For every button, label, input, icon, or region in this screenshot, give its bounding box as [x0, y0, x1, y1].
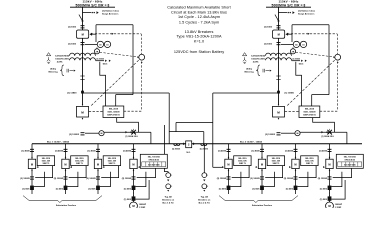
svg-text:115kV/13.8kV: 115kV/13.8kV: [251, 58, 265, 60]
wire: bay drop: [261, 144, 263, 194]
svg-text:(3) 1200/5: (3) 1200/5: [284, 178, 294, 180]
svg-text:M: M: [64, 163, 66, 167]
wire: bay drop: [295, 144, 297, 194]
dashed link breaker-relay: [285, 111, 299, 113]
delta symbol: [243, 53, 247, 56]
bay breaker drawout: [228, 156, 230, 158]
CT secondary wiring loop: [265, 166, 282, 178]
relay circle TR: [94, 49, 99, 54]
tie control header: [169, 131, 204, 133]
svg-text:(1) 50/5: (1) 50/5: [286, 188, 294, 190]
zero-seq CT wiring: [135, 172, 146, 187]
lockout relay circle 86: [281, 132, 295, 134]
svg-text:13.8kV Breakers: 13.8kV Breakers: [185, 30, 214, 34]
svg-text:(1) 400/5: (1) 400/5: [218, 149, 227, 152]
bay breaker drawout: [295, 156, 297, 158]
svg-text:(1) 1000/5: (1) 1000/5: [292, 59, 300, 61]
station PT fuse (1) 13800: [81, 91, 84, 94]
CT secondary wiring loop: [35, 166, 52, 178]
motor bay relay label box: [336, 154, 363, 168]
svg-text:(1) 400/5: (1) 400/5: [251, 149, 260, 152]
svg-text:5000MVA S/C X/R = 8: 5000MVA S/C X/R = 8: [272, 3, 306, 7]
svg-text:2: 2: [207, 186, 208, 188]
bay relay label box: [37, 156, 54, 166]
svg-text:(1) 400/5: (1) 400/5: [319, 149, 328, 152]
svg-text:(1) 50/5: (1) 50/5: [252, 188, 260, 190]
second zero-seq CT (1) 50/5: [133, 190, 135, 196]
wire: bay drop: [31, 144, 33, 194]
typ breakers note bus1: [165, 125, 169, 172]
svg-text:Breakers on: Breakers on: [198, 198, 211, 201]
secondary metering tap with arrows: [95, 60, 104, 62]
svg-text:Breakers on: Breakers on: [162, 198, 175, 201]
svg-text:SEL-351S: SEL-351S: [272, 158, 281, 160]
dashed link TR to 86T: [296, 52, 334, 57]
surge arrester branch: [279, 12, 288, 14]
svg-text:50BF 79: 50BF 79: [306, 163, 313, 165]
svg-text:(3) 1200/5: (3) 1200/5: [20, 178, 30, 180]
svg-text:1000HP: 1000HP: [335, 204, 343, 206]
typ breakers note bus2: [203, 144, 205, 173]
motor M 1000HP: [130, 202, 138, 210]
svg-text:(1) 50/5: (1) 50/5: [88, 188, 96, 190]
bay relay label box: [71, 156, 88, 166]
svg-text:600:5: 600:5: [299, 63, 304, 65]
control wiring rectangle: [292, 24, 329, 26]
svg-text:(1) 400/5: (1) 400/5: [55, 149, 64, 152]
svg-text:(3) 1200/5: (3) 1200/5: [86, 178, 96, 180]
lockout relay circle 86: [85, 132, 99, 134]
svg-text:2: 2: [171, 186, 172, 188]
wire: bay drop: [228, 144, 230, 194]
relay circles 50/51: [281, 43, 293, 45]
svg-text:50/51, 50/51N: 50/51, 50/51N: [108, 111, 121, 113]
wire: feeder drop: [82, 7, 84, 104]
arrow into breaker: [37, 166, 39, 168]
svg-text:50BF 79: 50BF 79: [76, 163, 83, 165]
svg-text:Bus 1 13.8kV - 1200A: Bus 1 13.8kV - 1200A: [47, 140, 69, 143]
meter box FM: [77, 30, 89, 38]
zero-seq CT wiring: [331, 172, 342, 187]
svg-text:(3) 1200/5: (3) 1200/5: [122, 178, 132, 180]
svg-text:Metering: Metering: [244, 70, 254, 73]
svg-text:Surge Arresters: Surge Arresters: [298, 13, 315, 16]
svg-text:1: 1: [171, 175, 172, 177]
zero-seq CT wiring: [297, 172, 308, 187]
svg-text:(1) Station Class: (1) Station Class: [102, 10, 120, 13]
svg-text:(3) 1200/5: (3) 1200/5: [217, 178, 227, 180]
svg-text:600:5: 600:5: [103, 63, 108, 65]
svg-text:(1) 50/5: (1) 50/5: [219, 188, 227, 190]
delta symbol: [47, 53, 51, 56]
svg-text:SEL-351S: SEL-351S: [305, 158, 314, 160]
svg-text:Utility: Utility: [246, 67, 253, 70]
CT secondary wiring staircase to relay box: [100, 62, 106, 106]
svg-text:50BF 79: 50BF 79: [239, 163, 246, 165]
station PT fuse (1) 13800: [277, 91, 280, 94]
svg-text:50/51, 50/51N: 50/51, 50/51N: [304, 111, 317, 113]
svg-text:50BF 79: 50BF 79: [273, 163, 280, 165]
svg-text:(1) 1000/5: (1) 1000/5: [96, 59, 104, 61]
svg-text:50BF 27/59 81: 50BF 27/59 81: [107, 114, 120, 116]
svg-text:SEL-351S: SEL-351S: [305, 108, 315, 110]
svg-text:1: 1: [207, 175, 208, 177]
relay box feeds: [312, 94, 329, 96]
svg-text:Substation Feeders: Substation Feeders: [252, 204, 273, 207]
surge arrester branch: [83, 12, 92, 14]
svg-text:SEL-351S: SEL-351S: [108, 158, 117, 160]
svg-text:SEL-710 50/51: SEL-710 50/51: [344, 157, 356, 159]
svg-text:M: M: [278, 33, 280, 37]
zero-seq CT wiring: [34, 172, 45, 187]
svg-text:N.O.: N.O.: [186, 152, 191, 154]
dashed link breaker-relay: [89, 111, 103, 113]
dashed diagonal trip line: [287, 59, 335, 105]
bay relay label box: [267, 156, 284, 166]
wire: feeder drop: [278, 7, 280, 104]
svg-text:Surge Arresters: Surge Arresters: [102, 13, 119, 16]
NO bypass switch to bus: [117, 118, 139, 132]
svg-text:87M 49 46 66: 87M 49 46 66: [345, 158, 355, 161]
bay breaker drawout: [65, 156, 67, 158]
tie breaker 52T: [174, 144, 180, 146]
arrow into breaker: [222, 166, 224, 168]
svg-text:Z=8%: Z=8%: [253, 61, 259, 63]
zero-seq CT wiring: [100, 172, 111, 187]
arrow into breaker: [70, 166, 72, 168]
svg-text:Typ. All: Typ. All: [201, 195, 209, 198]
disconnect switch: [275, 15, 279, 21]
svg-text:50BF 79: 50BF 79: [109, 163, 116, 165]
svg-text:(1) 50/5: (1) 50/5: [22, 188, 30, 190]
svg-text:K=1.0: K=1.0: [194, 39, 204, 43]
relay circle (transformer lockout): [335, 54, 341, 60]
svg-text:Utility: Utility: [50, 67, 57, 70]
svg-text:M: M: [82, 33, 84, 37]
svg-text:Metering: Metering: [48, 70, 58, 73]
svg-text:M: M: [132, 163, 134, 167]
relay box feeds: [116, 94, 133, 96]
wire: bay drop: [97, 144, 99, 194]
svg-text:5000MVA S/C X/R = 8: 5000MVA S/C X/R = 8: [76, 3, 110, 7]
svg-text:86: 86: [296, 133, 298, 135]
svg-text:1.15SF: 1.15SF: [335, 207, 342, 208]
svg-text:(1) 2000/5: (1) 2000/5: [172, 148, 180, 150]
svg-text:Bus 1 & Tie: Bus 1 & Tie: [163, 202, 175, 204]
svg-text:(1) 400/5: (1) 400/5: [87, 149, 96, 152]
svg-text:(1) 1500: (1) 1500: [264, 27, 273, 29]
svg-text:(1) 1500: (1) 1500: [264, 44, 273, 46]
svg-text:50BF 27/59 81: 50BF 27/59 81: [303, 114, 316, 116]
control wiring rectangle: [96, 24, 133, 26]
svg-text:50/51, 50N: 50/51, 50N: [75, 161, 84, 163]
svg-text:(3) 1200/5: (3) 1200/5: [69, 134, 80, 136]
svg-text:(1) Station Class: (1) Station Class: [298, 10, 316, 13]
svg-text:M: M: [227, 163, 229, 167]
CT secondary wiring loop: [69, 166, 86, 178]
svg-text:(3) 1200/5: (3) 1200/5: [265, 134, 276, 136]
trip lead to first bus2 bay: [213, 166, 223, 168]
svg-text:1st Cycle - 12.4kA Asym: 1st Cycle - 12.4kA Asym: [178, 15, 220, 19]
dashed link TR to 86T: [100, 52, 138, 57]
drawout chevrons on main: [276, 75, 280, 77]
substation feeders brace bus2: [219, 196, 298, 203]
substation feeders brace bus1: [23, 196, 102, 203]
dashed relay link right: [124, 110, 142, 112]
svg-text:SEL-351S: SEL-351S: [238, 158, 247, 160]
dashed control run to relay circle: [91, 33, 141, 35]
CT secondary wiring loop: [333, 168, 352, 177]
wire: bay drop: [133, 144, 135, 202]
svg-text:SEL-351S: SEL-351S: [42, 158, 51, 160]
svg-text:12/16/20 MVA: 12/16/20 MVA: [251, 55, 265, 58]
bay relay label box: [103, 156, 120, 166]
svg-text:Type VB1-15-20kA-1200A: Type VB1-15-20kA-1200A: [176, 35, 222, 39]
svg-text:Typ. All: Typ. All: [165, 195, 173, 198]
dashed relay link right: [320, 110, 338, 112]
svg-text:(1) 1500: (1) 1500: [68, 27, 77, 29]
svg-text:(1) 50/5: (1) 50/5: [124, 199, 132, 201]
svg-text:(3) 1200/5: (3) 1200/5: [318, 178, 328, 180]
bay breaker drawout: [261, 156, 263, 158]
svg-text:M: M: [261, 163, 263, 167]
bay breaker drawout: [31, 156, 33, 158]
relay circle TR: [290, 49, 295, 54]
svg-text:SEL-351S: SEL-351S: [109, 108, 119, 110]
bay breaker drawout: [97, 156, 99, 158]
svg-text:(3) 1200/5: (3) 1200/5: [54, 178, 64, 180]
svg-text:(1) 50/5: (1) 50/5: [56, 188, 64, 190]
second zero-seq CT (1) 50/5: [329, 190, 331, 196]
motor M 1000HP: [326, 202, 334, 210]
relay box SEL: [299, 106, 320, 118]
svg-text:Bus 2 13.8kV - 1200A: Bus 2 13.8kV - 1200A: [240, 140, 262, 143]
svg-text:(1) 400/5: (1) 400/5: [285, 149, 294, 152]
svg-text:87M 49 46 66: 87M 49 46 66: [149, 158, 159, 161]
svg-text:M: M: [97, 163, 99, 167]
wye-ground symbol: [243, 57, 247, 61]
secondary metering tap with arrows: [291, 60, 300, 62]
bay breaker drawout: [133, 156, 135, 158]
main breaker drawout: [82, 104, 84, 106]
dashed control run to relay circle: [287, 33, 337, 35]
svg-text:M: M: [328, 163, 330, 167]
wire: bay drop: [65, 144, 67, 194]
svg-text:(1) 1500: (1) 1500: [68, 44, 77, 46]
svg-text:Substation Feeders: Substation Feeders: [56, 204, 77, 207]
arrow into breaker: [256, 166, 258, 168]
dashed diagonal trip line: [91, 59, 139, 105]
transformer 12/16/20 MVA: [70, 53, 96, 56]
meter box FM: [273, 30, 285, 38]
svg-text:50/51, 50N: 50/51, 50N: [42, 161, 51, 163]
CT secondary wiring staircase to relay box: [296, 62, 302, 106]
svg-text:125VDC from Station Battery: 125VDC from Station Battery: [174, 50, 224, 54]
svg-text:(1) 13800: (1) 13800: [285, 92, 295, 94]
zero-seq CT wiring: [264, 172, 275, 187]
CT secondary wiring loop: [101, 166, 118, 178]
arrow into breaker: [103, 166, 105, 168]
svg-text:M: M: [31, 163, 33, 167]
arrow into breaker: [289, 166, 291, 168]
svg-text:1.5 Cycles - 7.2kA Sym: 1.5 Cycles - 7.2kA Sym: [179, 21, 219, 25]
CT secondary wiring loop: [299, 166, 316, 178]
svg-text:50/51, 50N: 50/51, 50N: [272, 161, 281, 163]
svg-text:115kV/13.8kV: 115kV/13.8kV: [55, 58, 69, 60]
wye-ground symbol: [47, 57, 51, 61]
svg-text:Z=8%: Z=8%: [57, 61, 63, 63]
svg-text:(1) 50/5: (1) 50/5: [320, 188, 328, 190]
bay breaker drawout: [329, 156, 331, 158]
relay circle (transformer lockout): [139, 54, 145, 60]
svg-text:(1) 13800: (1) 13800: [67, 92, 77, 94]
svg-text:1000HP: 1000HP: [139, 204, 147, 206]
svg-text:50/51, 50N: 50/51, 50N: [305, 161, 314, 163]
zero-seq CT wiring: [230, 172, 241, 187]
svg-text:50BF 79: 50BF 79: [43, 163, 50, 165]
svg-text:(1) 400/5: (1) 400/5: [123, 149, 132, 152]
relay circles 50/51: [85, 43, 97, 45]
svg-text:(3) 1200/5: (3) 1200/5: [250, 178, 260, 180]
svg-text:(1) 400/5: (1) 400/5: [21, 149, 30, 152]
bay relay label box: [234, 156, 251, 166]
svg-text:M: M: [294, 163, 296, 167]
drawout chevrons on main: [80, 75, 84, 77]
svg-text:(1) 2000/5: (1) 2000/5: [200, 148, 208, 150]
zero-seq CT wiring: [67, 172, 78, 187]
bay relay label box: [301, 156, 318, 166]
relay box SEL: [103, 106, 124, 118]
NO bypass switch to bus: [313, 118, 335, 132]
svg-text:(1) 50/5: (1) 50/5: [320, 199, 328, 201]
svg-text:SEL-351S: SEL-351S: [75, 158, 84, 160]
bus line: [32, 143, 362, 145]
svg-text:(1) 50/5: (1) 50/5: [124, 188, 132, 190]
CT secondary wiring loop: [137, 168, 156, 177]
svg-text:86: 86: [100, 133, 102, 135]
svg-text:Bus 2 & Tie: Bus 2 & Tie: [199, 202, 211, 204]
motor bay relay label box: [140, 154, 167, 168]
arrow into breaker: [323, 166, 325, 168]
disconnect switch: [79, 15, 83, 21]
svg-text:12/16/20 MVA: 12/16/20 MVA: [55, 55, 69, 58]
svg-text:SEL-710 50/51: SEL-710 50/51: [148, 157, 160, 159]
arrow into breaker: [138, 166, 140, 168]
svg-text:50/51, 50N: 50/51, 50N: [238, 161, 247, 163]
svg-text:Circuit at Each Main 13.8Kv Bu: Circuit at Each Main 13.8Kv Bus: [171, 10, 227, 14]
wire: bay drop: [329, 144, 331, 202]
svg-text:Calculated Maximum Available S: Calculated Maximum Available Short: [167, 5, 231, 9]
svg-text:1.15SF: 1.15SF: [139, 207, 146, 208]
cross tie control rail: [176, 122, 213, 124]
svg-text:(1) 1200A-12kV: (1) 1200A-12kV: [125, 135, 139, 138]
CT secondary wiring loop: [232, 166, 249, 178]
transformer 12/16/20 MVA: [266, 53, 292, 56]
svg-text:50/51, 50N: 50/51, 50N: [108, 161, 117, 163]
main breaker drawout: [278, 104, 280, 106]
svg-text:(1) 1200A-12kV: (1) 1200A-12kV: [321, 135, 335, 138]
